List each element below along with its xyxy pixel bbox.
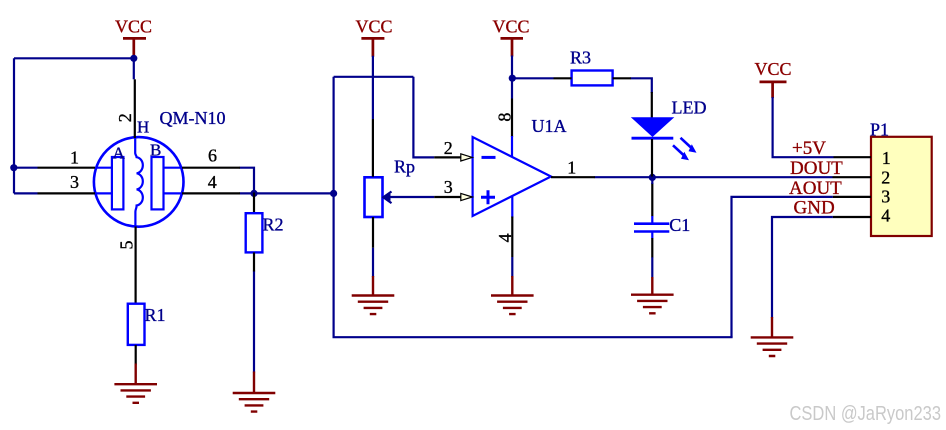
wire AOUT from P1 pin 3 down [732, 197, 833, 337]
svg-text:2: 2 [115, 113, 135, 122]
svg-text:3: 3 [881, 187, 890, 207]
svg-text:8: 8 [495, 113, 515, 122]
svg-text:6: 6 [208, 146, 217, 166]
R3 left pin [554, 77, 572, 79]
designator QM-N10 [160, 108, 226, 128]
svg-text:VCC: VCC [493, 16, 530, 36]
wire sensor pin 4 to node A [240, 192, 334, 194]
svg-text:R3: R3 [570, 48, 591, 68]
op-amp pin 2 input [434, 138, 472, 161]
svg-text:CSDN @JaRyon233: CSDN @JaRyon233 [790, 403, 942, 425]
op-amp U1A triangle [473, 116, 567, 216]
svg-text:Rp: Rp [394, 157, 415, 177]
sensor label B [150, 141, 161, 160]
ground G1 (R1) [114, 364, 157, 403]
wire node A top horizontal [334, 76, 414, 78]
net label DOUT [790, 158, 843, 179]
wire left loop vertical [13, 58, 15, 193]
wire down to op-amp pin 2 [413, 77, 434, 158]
wire VCC2 to Rp [372, 56, 374, 119]
sensor electrode A [112, 157, 124, 209]
LED light arrows [673, 138, 697, 161]
wire op-amp pin 4 to ground [511, 257, 513, 277]
svg-text:B: B [150, 141, 161, 160]
gas sensor QM-N10 body circle [94, 137, 184, 227]
sensor label H [137, 118, 149, 137]
svg-text:P1: P1 [870, 119, 889, 139]
connector P1 [870, 119, 932, 236]
svg-text:1: 1 [70, 148, 79, 168]
sensor label A [113, 143, 126, 162]
op-amp pin 3 input [434, 177, 472, 201]
ground G3 (Rp) [352, 276, 395, 314]
junction node A (sensor output) [330, 190, 337, 197]
P1 pin 2 [833, 168, 891, 188]
svg-text:3: 3 [444, 177, 453, 197]
junction VCC3 node [509, 75, 516, 82]
svg-text:R1: R1 [145, 305, 166, 325]
wire feedback bottom (node A to AOUT) [333, 336, 733, 338]
svg-text:3: 3 [70, 172, 79, 192]
svg-text:AOUT: AOUT [789, 178, 842, 199]
sensor pin 5 [116, 227, 136, 305]
sensor pin 6 [182, 146, 240, 168]
net label AOUT [789, 178, 842, 199]
svg-text:LED: LED [672, 98, 707, 118]
svg-text:QM-N10: QM-N10 [160, 108, 226, 128]
wire VCC3 to R3 [512, 77, 553, 79]
svg-text:VCC: VCC [755, 59, 792, 79]
svg-text:+5V: +5V [792, 138, 826, 159]
svg-text:4: 4 [208, 172, 217, 192]
R2 top stub [253, 193, 255, 214]
LED diode symbol [632, 98, 707, 139]
C1 top pin [651, 178, 653, 217]
sensor internal stubs [95, 168, 182, 194]
ground G5 (C1) [631, 277, 674, 313]
wire wiper to op-amp pin 3 [390, 196, 434, 198]
svg-text:2: 2 [444, 138, 453, 158]
junction pin1 tap [10, 164, 17, 171]
R2 bottom stub [253, 252, 255, 271]
svg-text:GND: GND [794, 198, 835, 219]
ground G6 (P1 GND) [751, 317, 794, 356]
watermark [790, 403, 942, 425]
LED bottom pin [651, 139, 653, 177]
svg-text:1: 1 [882, 148, 891, 168]
resistor R3 [570, 48, 613, 86]
sensor pin 3 [38, 172, 96, 194]
svg-text:DOUT: DOUT [790, 158, 843, 179]
ground G2 (R2) [233, 372, 276, 412]
wire to sensor pin 1 [14, 167, 38, 169]
wire C1 to ground stem [651, 257, 653, 278]
wire VCC3 down to op-amp pin 8 [511, 56, 513, 99]
sensor electrode B [152, 157, 164, 209]
Rp bottom pin [372, 217, 374, 248]
power symbol VCC1 (sensor supply) [115, 16, 152, 56]
svg-text:5: 5 [116, 241, 136, 250]
Rp wiper arrow [383, 192, 392, 204]
svg-text:H: H [137, 118, 149, 137]
sensor heater coil H [135, 139, 143, 227]
C1 bottom pin [651, 238, 653, 257]
LED top pin [651, 92, 653, 118]
wire to sensor pin 3 [14, 192, 38, 194]
P1 pin 4 [833, 206, 890, 226]
wire Rp bottom to ground [372, 248, 374, 277]
power symbol VCC3 (op-amp supply) [493, 16, 530, 56]
potentiometer Rp [365, 157, 416, 217]
op-amp pin 8 power [495, 99, 515, 158]
wire node A vertical [333, 77, 335, 337]
svg-text:1: 1 [567, 158, 576, 178]
junction at VCC1 node [130, 55, 137, 62]
svg-text:VCC: VCC [356, 16, 393, 36]
op-amp pin 4 power [495, 196, 515, 257]
R1 bottom stub [135, 345, 137, 365]
junction R2 node [250, 190, 257, 197]
R3 right pin [613, 77, 631, 79]
wire VCC1 to sensor pin 2 [133, 56, 135, 80]
svg-text:VCC: VCC [115, 16, 152, 36]
wire R3 to LED corner [631, 78, 652, 93]
svg-text:2: 2 [881, 168, 890, 188]
op-amp pin 1 output [551, 158, 595, 178]
wire sensor pin 6 corner [240, 168, 255, 193]
net label +5V [792, 138, 826, 159]
svg-text:A: A [113, 143, 126, 162]
svg-text:4: 4 [881, 206, 890, 226]
svg-text:C1: C1 [669, 215, 690, 235]
Rp top pin [372, 119, 374, 177]
sensor pin 1 [38, 148, 96, 168]
op-amp plus symbol [481, 190, 495, 204]
ground G4 (op-amp) [491, 276, 534, 314]
wire left loop top [14, 57, 134, 59]
resistor R2 [246, 213, 284, 252]
P1 pin 1 [834, 148, 891, 168]
junction LED / C1 / output node [649, 174, 656, 181]
wire R2 bottom to ground [253, 271, 255, 373]
svg-text:4: 4 [495, 233, 515, 242]
power symbol VCC2 (Rp supply) [356, 16, 393, 57]
svg-text:R2: R2 [263, 215, 284, 235]
op-amp minus symbol [482, 156, 496, 159]
wire GND from P1 pin 4 [772, 217, 833, 318]
wire op-amp output to P1 pin 2 (DOUT net) [595, 176, 833, 178]
net label GND [794, 198, 835, 219]
sensor pin 2 [115, 79, 135, 138]
sensor pin 4 [182, 172, 240, 193]
svg-text:U1A: U1A [532, 116, 567, 136]
resistor R1 [128, 304, 166, 345]
wire VCC4 to P1 pin 1 (+5V net) [773, 97, 834, 157]
P1 pin 3 [833, 187, 890, 207]
capacitor C1 [634, 215, 690, 239]
power symbol VCC4 (P1 +5V) [755, 59, 792, 98]
